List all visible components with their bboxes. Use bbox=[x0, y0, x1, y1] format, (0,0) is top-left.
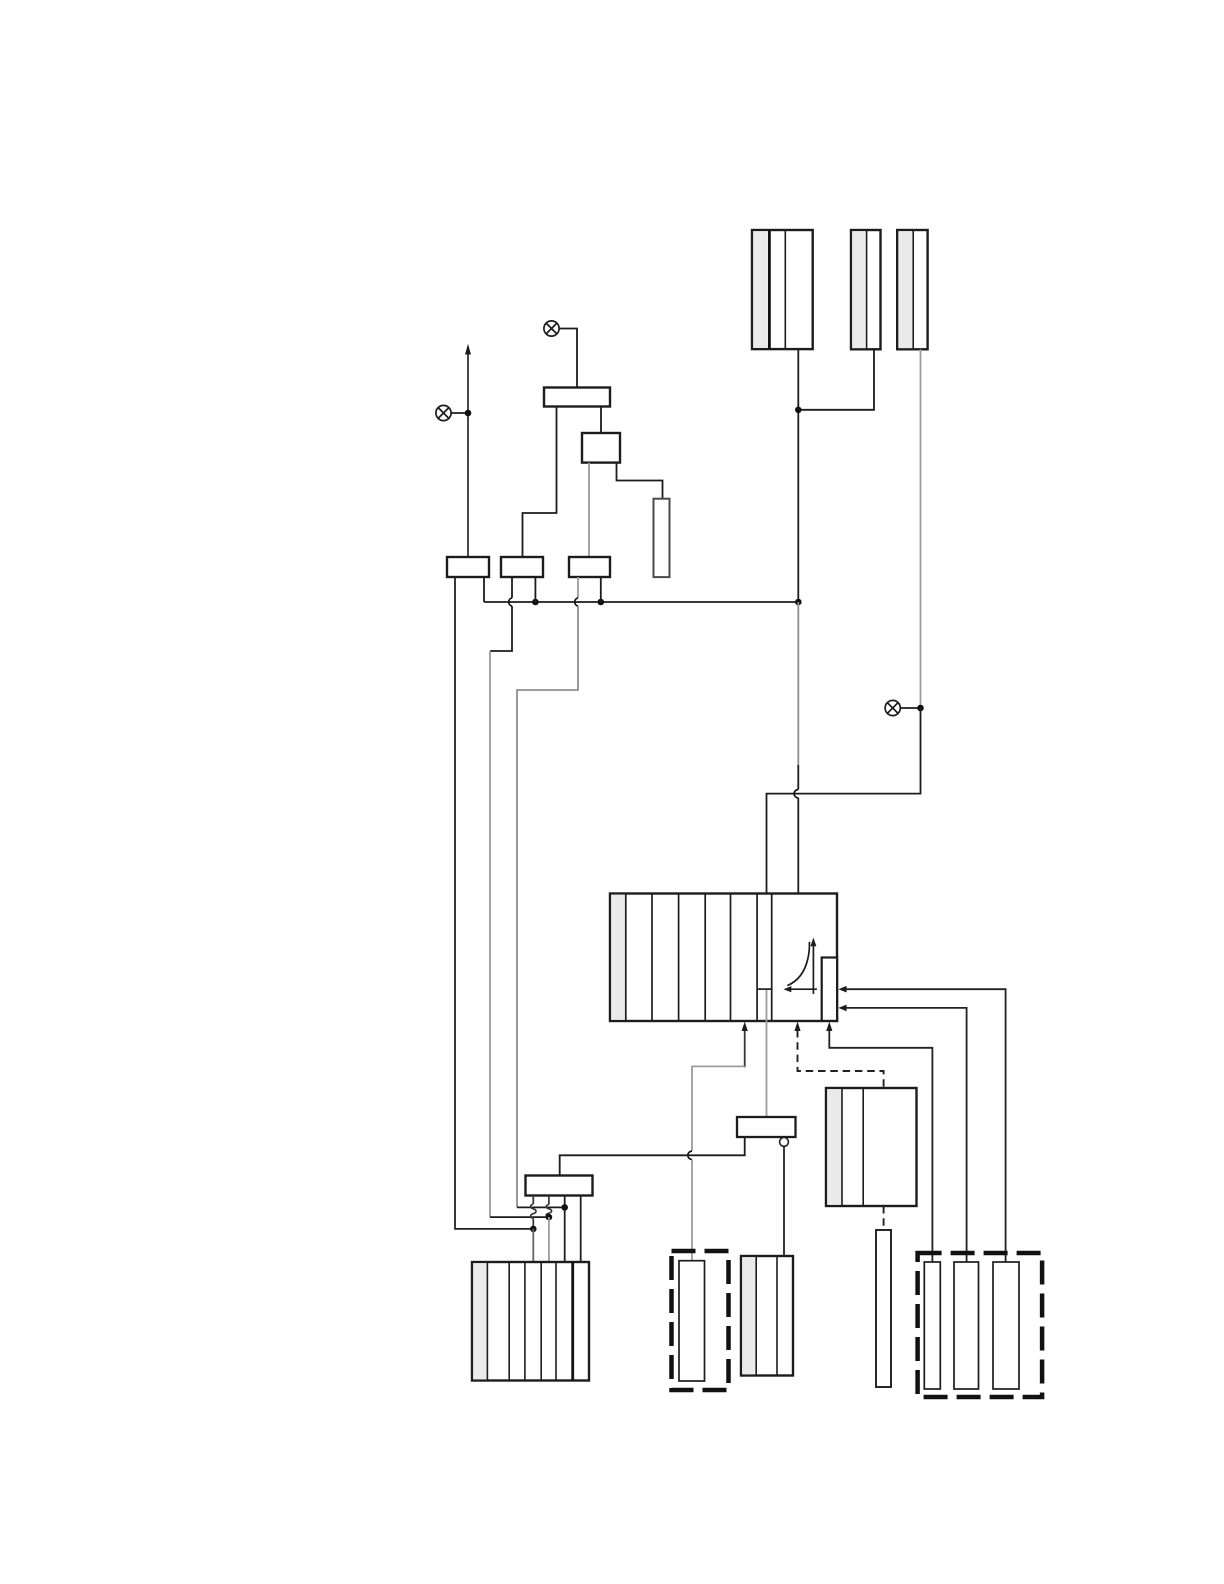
connector box A bbox=[447, 557, 489, 577]
dashed component box DB2 bbox=[918, 1253, 1043, 1397]
relay box T1 bbox=[544, 388, 610, 407]
resistor R (vertical) bbox=[654, 499, 670, 577]
wire C splice horizontal bbox=[517, 1206, 565, 1208]
dashed wire from ecu to relay block C3 bbox=[794, 1022, 800, 1031]
wire w4 down to block C1 bbox=[580, 1196, 582, 1263]
connector block K3 bbox=[897, 230, 927, 349]
wire hop at K1 x horizontal 793 bbox=[794, 790, 798, 798]
switch box SW bbox=[737, 1117, 796, 1137]
gray wire from ecu internal divider down to switch box bbox=[766, 990, 768, 1117]
splice dot w1 bbox=[530, 1226, 537, 1233]
lamp symbol L3 (circle-X) bbox=[885, 700, 900, 715]
resistor element R1 in DB2 bbox=[924, 1262, 940, 1389]
connector block C1 bbox=[472, 1262, 589, 1381]
connector block K1 bbox=[752, 230, 813, 349]
wire hop at gray path x switch wire bbox=[688, 1151, 692, 1159]
gray return path lower segment bbox=[691, 1160, 693, 1262]
coil wire w1 with squiggle bbox=[531, 1196, 536, 1229]
wire from K3 down (gray) bbox=[920, 349, 922, 708]
wire K1 dark segment to hop bbox=[797, 765, 799, 790]
wire K1 into ecu top bbox=[797, 798, 799, 894]
wire L2 to arrow line bbox=[451, 412, 468, 414]
characteristic curve symbol inside ecu bbox=[787, 942, 817, 994]
wire w1 down to block C1 bbox=[532, 1229, 534, 1262]
splice dot w3 bbox=[561, 1204, 568, 1211]
wire hop at B-left x bus bbox=[509, 598, 512, 606]
connector block K2 bbox=[851, 230, 881, 349]
arrow wire P1 from resistor string R1 into ecu bottom bbox=[826, 1022, 832, 1031]
wire K1 gray segment below bus bbox=[797, 602, 799, 765]
wire w2 down to block C1 (gray) bbox=[548, 1217, 550, 1262]
junction dot K1/K2 bbox=[795, 407, 802, 414]
wire C-left gray elbow and vertical run bbox=[517, 606, 578, 1207]
wire L3 to junction bbox=[900, 707, 921, 709]
wire box B left down (hops bus) bbox=[511, 577, 513, 598]
wire hop at C-left x bus bbox=[575, 598, 578, 606]
wire box C right to bus bbox=[600, 577, 602, 602]
junction dot on arrow line bbox=[465, 410, 472, 417]
wire T1 right to box T2 bbox=[600, 407, 602, 434]
dashed component box DB1 bbox=[672, 1251, 729, 1390]
wire SW left output to relay box RB bbox=[560, 1137, 745, 1176]
wire from K2 joining K1 wire bbox=[798, 349, 874, 410]
resistor element R3 in DB2 bbox=[993, 1262, 1019, 1389]
connector box B bbox=[501, 557, 543, 577]
wire box A right to bus bbox=[483, 577, 485, 602]
arrow into ecu bottom (from gray return path) bbox=[744, 1030, 746, 1068]
wire B splice horizontal bbox=[490, 1216, 549, 1218]
junction dot B-right on bus bbox=[532, 599, 539, 606]
relay box RB bbox=[526, 1176, 593, 1196]
arrow wire W3 into sensor sub-box (upper) bbox=[838, 986, 846, 993]
lamp symbol L2 (circle-X) bbox=[436, 405, 451, 420]
lamp symbol L1 (circle-X) bbox=[544, 321, 559, 336]
wire from K1 down bbox=[797, 349, 799, 602]
coil wire w2 with squiggle bbox=[546, 1196, 551, 1218]
bus wire y=602 bbox=[484, 601, 798, 603]
inner element I1 of DB1 bbox=[679, 1261, 705, 1381]
arrow wire W2 into sensor sub-box (lower) bbox=[838, 1005, 846, 1012]
dashed wire C3 to thin resistor TR bbox=[883, 1206, 885, 1230]
relay box T2 bbox=[582, 433, 620, 463]
wire B-left gray vertical run bbox=[489, 651, 491, 1217]
wire box B right to bus bbox=[534, 577, 536, 602]
wire L3 junction down and left into ecu bbox=[767, 708, 921, 894]
junction dot C-right on bus bbox=[598, 599, 605, 606]
relay block C3 bbox=[826, 1088, 917, 1206]
wire box A left long run to bottom splice bbox=[455, 577, 533, 1229]
ecu big box bbox=[610, 894, 837, 1022]
sensor sub-box at ecu corner bbox=[822, 958, 837, 1021]
wire w3 down to block C1 bbox=[564, 1196, 566, 1263]
junction dot bus to K1 wire bbox=[795, 599, 802, 606]
junction dot L3 bbox=[917, 705, 924, 712]
wire T1 left to box B bbox=[523, 407, 557, 558]
wire T2 left to box C (gray) bbox=[588, 463, 590, 557]
wire L1 to relay T1 bbox=[559, 329, 577, 389]
splice dot w2 bbox=[546, 1214, 553, 1221]
switch contact circle bbox=[780, 1138, 789, 1147]
wire from contact down to block C2 bbox=[783, 1146, 785, 1256]
wire T2 right to resistor R bbox=[617, 463, 663, 499]
connector block C2 bbox=[741, 1256, 793, 1376]
resistor element R2 in DB2 bbox=[954, 1262, 979, 1389]
thin resistor TR bbox=[876, 1230, 891, 1387]
connector box C bbox=[569, 557, 610, 577]
wire B-left elbow bbox=[490, 606, 512, 651]
wire box C left down gray (hops bus) bbox=[577, 577, 579, 598]
gray return path to dashed box component bbox=[692, 1066, 745, 1151]
arrow up symbol (to other circuit) bbox=[467, 353, 469, 557]
